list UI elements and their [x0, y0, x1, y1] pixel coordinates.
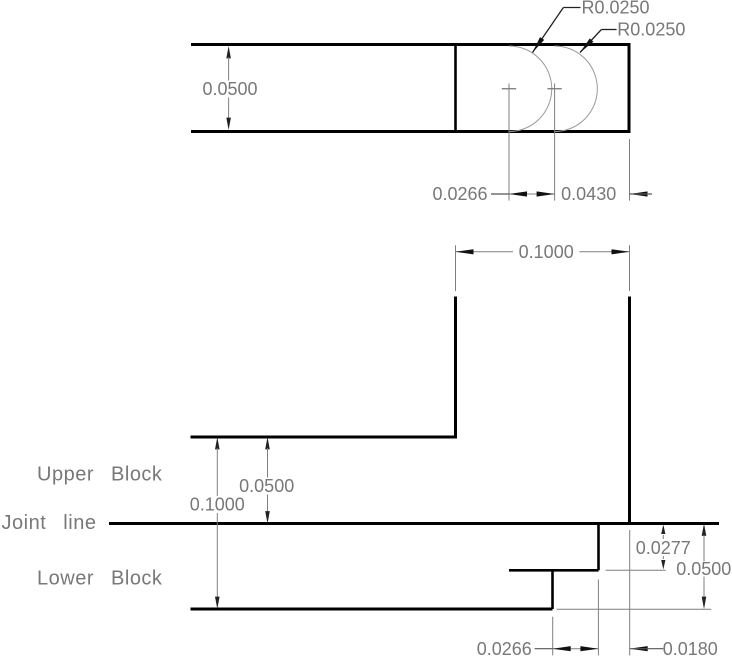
- extension line upper right vertical: [629, 530, 631, 655]
- svg-text:0.0266: 0.0266: [432, 184, 487, 204]
- lower block notch vertical: [551, 570, 554, 609]
- dimension 0.0500 front view right: [676, 524, 731, 610]
- extension line bottom surface right: [557, 608, 712, 610]
- top view: joint vertical line: [454, 45, 457, 132]
- center mark left: [502, 84, 516, 201]
- arc R0.0250 left: [509, 46, 552, 132]
- svg-text:0.0277: 0.0277: [636, 538, 691, 558]
- arc R0.0250 right: [555, 46, 598, 132]
- dimension 0.0180 front view: [630, 639, 718, 658]
- leader R0.0250 upper: [533, 0, 650, 53]
- front view: upper block step vertical: [454, 297, 457, 439]
- svg-text:0.1000: 0.1000: [519, 242, 574, 262]
- front view: upper block right vertical: [628, 297, 631, 524]
- extension line lower step vertical: [597, 580, 599, 656]
- svg-text:0.0500: 0.0500: [202, 79, 257, 99]
- dimension 0.0500 front view left: [239, 437, 294, 524]
- dimension 0.0277: [636, 525, 691, 570]
- svg-text:Upper Block: Upper Block: [37, 464, 163, 486]
- svg-text:R0.0250: R0.0250: [582, 0, 650, 18]
- dimension 0.0430 top view: [561, 184, 652, 204]
- dimension 0.1000 front view left: [190, 437, 245, 609]
- dimension 0.0266 top view: [432, 184, 554, 204]
- extension line right edge top view: [629, 139, 631, 201]
- joint line: [109, 522, 719, 525]
- top view: top edge: [191, 43, 631, 46]
- svg-text:0.0180: 0.0180: [663, 639, 718, 658]
- extension line notch vertical: [552, 617, 554, 656]
- extension line step surface right: [606, 569, 666, 571]
- leader R0.0250 lower: [580, 20, 685, 53]
- lower block step horizontal: [509, 569, 599, 572]
- dimension 0.0500 top view left: [202, 46, 257, 130]
- lower block step vertical: [597, 522, 600, 570]
- lower block bottom edge: [191, 608, 553, 611]
- svg-text:0.0430: 0.0430: [561, 184, 616, 204]
- center mark right: [547, 84, 561, 201]
- top view: right edge: [628, 43, 631, 133]
- svg-text:0.0266: 0.0266: [477, 639, 532, 658]
- dimension 0.0266 front view: [477, 639, 599, 658]
- dimension 0.1000 front view top: [456, 242, 630, 291]
- svg-text:0.1000: 0.1000: [190, 495, 245, 515]
- svg-text:R0.0250: R0.0250: [617, 20, 685, 40]
- svg-text:Joint line: Joint line: [2, 512, 97, 534]
- svg-text:0.0500: 0.0500: [676, 559, 731, 579]
- svg-text:Lower Block: Lower Block: [37, 568, 163, 590]
- top view: bottom edge: [191, 130, 631, 133]
- front view: upper block step horizontal: [191, 436, 456, 439]
- svg-text:0.0500: 0.0500: [239, 476, 294, 496]
